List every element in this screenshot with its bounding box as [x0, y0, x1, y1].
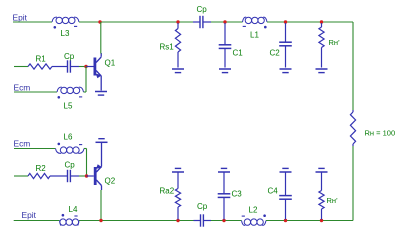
svg-text:L6: L6 [64, 132, 73, 141]
capacitor Cp (Q1 base) [62, 66, 68, 68]
resistor Rs1 [177, 23, 179, 29]
svg-text:L4: L4 [69, 205, 78, 214]
ground below Rs1 [172, 68, 184, 70]
svg-text:Epit: Epit [13, 12, 28, 22]
ground below C2 [280, 68, 292, 70]
capacitor C3 [223, 172, 225, 194]
capacitor Cp (bottom series) [194, 220, 201, 222]
resistor Rn load [350, 112, 355, 144]
ground below C1 [219, 68, 231, 70]
wire base lead to Q2 [87, 175, 94, 177]
inductor L3 [52, 17, 57, 22]
wire L1 to top-right corner [267, 21, 353, 23]
transistor Q1 [94, 58, 97, 76]
wire L4 to Cp (bottom rail) [79, 220, 194, 222]
svg-text:C1: C1 [233, 48, 244, 57]
svg-text:Cp: Cp [197, 202, 208, 211]
svg-text:R2: R2 [36, 164, 47, 173]
svg-text:C3: C3 [232, 189, 243, 198]
wire input to R2 [14, 175, 28, 177]
inductor L6 [56, 149, 62, 154]
wire Cp to L2 [211, 220, 242, 222]
node junction bottom rail / C4 [284, 219, 287, 222]
wire L3 to Cp (top rail) [79, 21, 193, 23]
node junction bottom rail / Ra2 [176, 219, 179, 222]
node junction Q2 base [85, 174, 88, 177]
transistor Q2 [94, 167, 97, 185]
wire Q2 collector down to bottom rail [101, 186, 103, 191]
svg-text:Cp: Cp [197, 5, 208, 14]
wire Ecm to L6 [14, 148, 56, 150]
node junction top rail / C2 [284, 20, 287, 23]
wire L6 down to Q2 base node [84, 148, 87, 150]
wire Q2 emitter up to ground [101, 142, 103, 166]
node junction top rail / C1 [223, 20, 226, 23]
wire L5 up to Q1 base node [84, 91, 87, 93]
svg-text:Rн’: Rн’ [327, 196, 339, 205]
ground below Q1 emitter [95, 91, 107, 93]
ground above Ra2 [172, 171, 184, 173]
resistor Ra2 [177, 172, 179, 189]
inductor L2 [242, 221, 246, 226]
svg-text:C2: C2 [270, 48, 281, 57]
node junction bottom rail / C3 [222, 219, 225, 222]
capacitor Cp (top series) [193, 21, 200, 23]
node junction top rail / Rs1 [176, 20, 179, 23]
svg-text:Epit: Epit [22, 210, 37, 220]
ground above C3 [218, 171, 230, 173]
node junction bottom rail / Rn' (bottom) [320, 219, 323, 222]
svg-text:R1: R1 [36, 54, 47, 63]
node junction top rail / Q1 collector [98, 20, 101, 23]
svg-text:L2: L2 [249, 206, 258, 215]
wire Epit to L3 [13, 21, 52, 23]
inductor L5 [57, 87, 62, 92]
svg-text:Cp: Cp [65, 160, 76, 169]
wire right vertical (down to bottom rail) [352, 146, 354, 221]
wire Q1 emitter down [100, 76, 102, 91]
svg-text:C4: C4 [268, 186, 279, 195]
resistor Rn' (bottom) [321, 172, 323, 191]
node junction top rail / Rn' (top) [320, 20, 323, 23]
wire Q1 collector up to top rail [100, 53, 102, 57]
inductor L1 [243, 17, 247, 22]
wire Cp to Q2 base node [79, 175, 87, 177]
wire Cp to Q1 base node [79, 66, 86, 68]
wire L2 to bottom-right corner [266, 220, 353, 222]
capacitor C1 [224, 23, 226, 45]
wire Epit to L4 [14, 220, 60, 222]
wire Cp to L1 [211, 21, 243, 23]
svg-text:Rн’: Rн’ [329, 38, 341, 47]
ground above Rn' (bottom) [316, 171, 328, 173]
svg-text:Cp: Cp [64, 52, 75, 61]
capacitor C4 [285, 172, 287, 196]
svg-text:Ra2: Ra2 [160, 187, 175, 196]
inductor L4 [60, 221, 61, 226]
resistor R2 [28, 173, 50, 178]
node junction Q1 base / L5 [84, 65, 87, 68]
resistor R1 [28, 64, 52, 69]
svg-text:Rн = 100: Rн = 100 [365, 129, 396, 138]
svg-text:Ecm: Ecm [14, 138, 31, 148]
wire right vertical (top rail corner down) [352, 22, 354, 110]
ground below Rn' (top) [316, 68, 328, 70]
wire input to R1 [14, 66, 28, 68]
wire Ecm to L5 [14, 91, 57, 93]
svg-text:Q2: Q2 [105, 176, 116, 185]
ground above C4 [280, 171, 292, 173]
node junction bottom rail / Q2 collector [99, 219, 102, 222]
ground above Q2 emitter [96, 141, 108, 143]
svg-text:L1: L1 [250, 31, 259, 40]
resistor Rn' (top) [321, 23, 323, 27]
svg-text:Rs1: Rs1 [160, 43, 175, 52]
wire base lead to Q1 [86, 66, 94, 68]
svg-text:Ecm: Ecm [14, 82, 31, 92]
svg-text:L5: L5 [64, 101, 73, 110]
capacitor Cp (Q2 base) [62, 175, 68, 177]
capacitor C2 [285, 23, 287, 42]
svg-text:Q1: Q1 [105, 58, 116, 67]
svg-text:L3: L3 [61, 29, 70, 38]
